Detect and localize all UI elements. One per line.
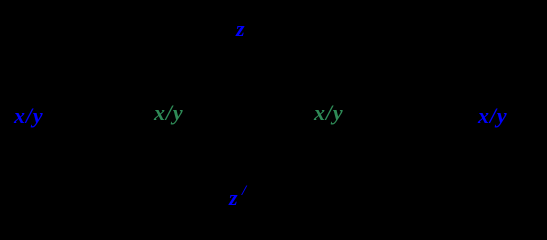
wire label x/y (mid-right, green) <box>314 102 344 124</box>
wire label x/y (mid-left, green) <box>154 102 184 124</box>
prime mark of z' <box>242 184 246 199</box>
wire label x/y (left, blue) <box>14 105 44 127</box>
wire label x/y (right, blue) <box>478 105 508 127</box>
node z' (output label, bottom center) <box>229 187 238 209</box>
node z (output label, top center) <box>236 18 245 40</box>
